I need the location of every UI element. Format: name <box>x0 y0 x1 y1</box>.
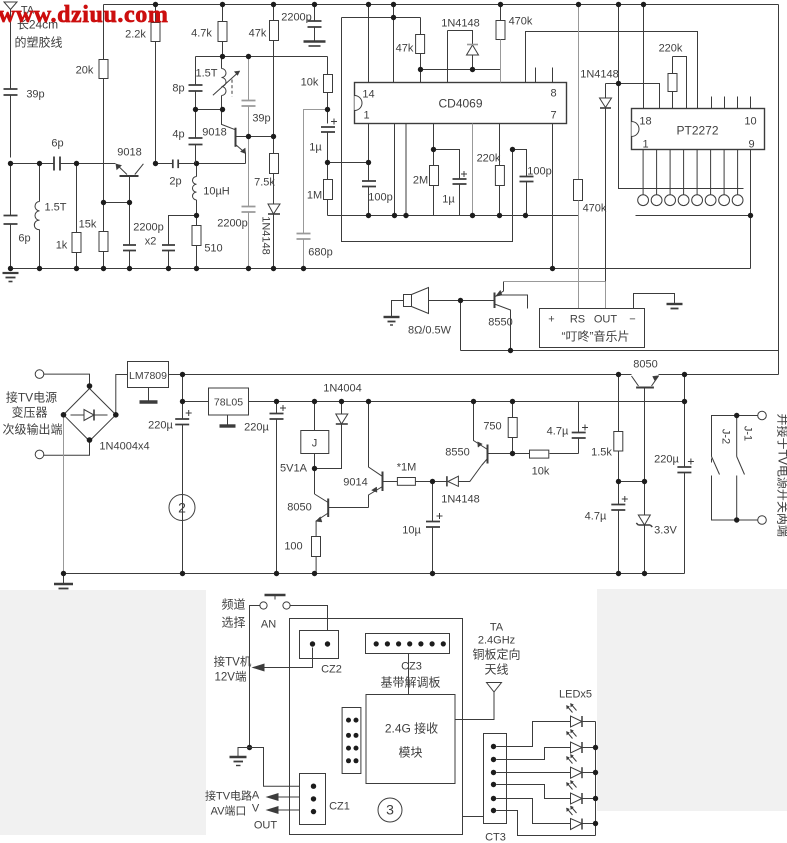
wire: 1u/1M node to CD4069 pin1 column <box>328 162 369 164</box>
svg-text:AN: AN <box>261 619 276 631</box>
diode 1N4148 (osc) <box>268 204 280 269</box>
switch pads (8 circles) <box>638 195 743 206</box>
wire: music chip - terminal to ground <box>634 294 675 309</box>
capacitor 8p <box>189 85 203 110</box>
svg-text:2200p: 2200p <box>133 222 164 234</box>
wire: LED cathode bus <box>595 722 597 836</box>
node dots LED bus <box>593 745 598 826</box>
svg-text:10k: 10k <box>301 77 319 89</box>
svg-text:20k: 20k <box>76 65 94 77</box>
svg-text:“叮咚”音乐片: “叮咚”音乐片 <box>562 329 630 344</box>
antenna (top-left plastic wire antenna) <box>4 2 17 89</box>
wire: 5V rail y=401 <box>249 401 685 403</box>
svg-text:39p: 39p <box>252 113 270 125</box>
svg-text:1µ: 1µ <box>309 142 322 154</box>
svg-text:4.7µ: 4.7µ <box>585 511 607 523</box>
capacitor 100p (pin7 side) <box>513 150 534 216</box>
wire: base node y=481 <box>619 481 645 483</box>
resistor 47k (osc) <box>270 5 279 137</box>
svg-text:78L05: 78L05 <box>214 397 243 409</box>
resistor 750 <box>508 402 517 454</box>
wire: board to CT3 <box>463 816 484 818</box>
svg-text:铜板定向: 铜板定向 <box>472 647 520 662</box>
svg-text:3.3V: 3.3V <box>654 525 677 537</box>
wire: ground node to CZ1 <box>250 748 300 787</box>
svg-text:100p: 100p <box>527 166 551 178</box>
wire: bottom bus y=573 <box>64 573 685 575</box>
connector CZ2 <box>300 631 339 659</box>
svg-text:220k: 220k <box>477 153 501 165</box>
svg-text:模块: 模块 <box>398 746 422 760</box>
capacitor 1u (CD4069, electrolytic) <box>434 150 468 216</box>
svg-text:1N4004: 1N4004 <box>323 383 362 395</box>
svg-text:10: 10 <box>744 116 756 128</box>
wire: PT2272 left column from bus <box>643 5 645 109</box>
wire: 20k/15k node to 9018 base <box>104 202 130 204</box>
regulator 78L05 <box>209 388 249 415</box>
resistor 2.2k (collector load) <box>151 5 160 164</box>
antenna TA 2.4G <box>456 683 502 720</box>
wire: rail link to 5V rail <box>684 375 686 402</box>
resistor 1k <box>72 164 81 269</box>
svg-text:1M: 1M <box>307 190 322 202</box>
svg-text:V: V <box>252 803 260 815</box>
capacitor 220u (5V filter) <box>270 402 287 574</box>
wire: CT3 pin4 to LED4 <box>496 785 570 799</box>
svg-text:8550: 8550 <box>488 317 512 329</box>
capacitor 2200p (x2, B) <box>162 245 175 269</box>
svg-text:的塑胶线: 的塑胶线 <box>14 35 62 50</box>
wire: gray pin column <box>472 124 474 216</box>
svg-text:18: 18 <box>639 116 651 128</box>
wire: CZ3 to module <box>408 654 410 695</box>
LED D5 <box>567 806 596 830</box>
wire: 8p/1.5T junction y=109 <box>196 109 222 111</box>
wire: PT2272 NC stubs top <box>712 97 751 109</box>
capacitor 100p (pin1) <box>362 181 376 216</box>
transistor 9018 (oscillator) <box>222 110 249 164</box>
node dots audio <box>458 298 513 353</box>
capacitor 2200p (decoupling, with ground) <box>308 5 322 41</box>
node dots switches <box>734 413 739 523</box>
transistor 9018 (first stage, common base) <box>116 164 144 203</box>
regulator LM7809 <box>128 362 169 388</box>
svg-text:次级输出端: 次级输出端 <box>2 422 62 437</box>
svg-text:3: 3 <box>386 802 394 818</box>
svg-text:2200p: 2200p <box>281 12 312 24</box>
svg-text:9014: 9014 <box>343 477 367 489</box>
svg-text:1.5k: 1.5k <box>591 447 612 459</box>
svg-text:4p: 4p <box>172 129 184 141</box>
svg-text:1N4148: 1N4148 <box>441 494 480 506</box>
resistor 15k <box>99 203 108 269</box>
wire: CT3 pin3 to LED3 <box>496 772 570 774</box>
terminal circle (AC in bottom) <box>35 450 44 459</box>
svg-text:39p: 39p <box>26 89 44 101</box>
wire: emitter line to music chip OUT (gray) <box>504 282 606 309</box>
capacitor 1u electrolytic <box>321 119 337 163</box>
capacitor 220u (9V filter) <box>175 375 192 574</box>
svg-text:1N4004x4: 1N4004x4 <box>99 441 149 453</box>
svg-text:750: 750 <box>483 421 501 433</box>
svg-text:220µ: 220µ <box>654 454 679 466</box>
connector CT3 <box>484 734 507 824</box>
svg-text:510: 510 <box>204 243 222 255</box>
svg-text:47k: 47k <box>396 43 414 55</box>
svg-text:LM7809: LM7809 <box>129 370 167 382</box>
transistor 8550 (audio) <box>495 282 511 351</box>
wire: net y=17 to 47k <box>342 5 421 83</box>
LED D4 <box>567 781 596 805</box>
connector CZ1 <box>300 774 326 825</box>
svg-text:−: − <box>629 314 635 326</box>
wire: CT3 pin5 to LED5 <box>496 799 570 824</box>
svg-text:www.dziuu.com: www.dziuu.com <box>0 2 168 28</box>
svg-text:接TV电路: 接TV电路 <box>205 790 252 803</box>
svg-text:接TV电源: 接TV电源 <box>6 390 57 405</box>
svg-text:+: + <box>548 314 554 326</box>
arrow V (audio out) <box>266 806 300 814</box>
capacitor 39p (osc feedback, gray) <box>242 57 256 137</box>
svg-text:变压器: 变压器 <box>11 405 47 420</box>
wire: speaker-base node down to switched rail y=350 <box>461 301 779 351</box>
resistor 220k (PT2272) <box>668 57 687 109</box>
svg-text:220µ: 220µ <box>244 422 269 434</box>
LED D1 <box>567 704 596 728</box>
ground (top-left) <box>3 272 19 274</box>
svg-text:CD4069: CD4069 <box>438 97 482 111</box>
capacitor 4p <box>189 110 203 164</box>
svg-text:2.2k: 2.2k <box>125 29 146 41</box>
diode 1N4148 (CD4069 osc) <box>467 45 479 70</box>
svg-text:2: 2 <box>178 500 186 516</box>
svg-text:CZ3: CZ3 <box>401 661 422 673</box>
svg-text:2p: 2p <box>169 176 181 188</box>
svg-text:J: J <box>312 438 318 450</box>
svg-text:10µH: 10µH <box>203 186 230 198</box>
wire: PT2272 address pins to switches <box>643 150 738 195</box>
resistor 10k (AF out) <box>324 57 333 124</box>
svg-text:1µ: 1µ <box>442 194 455 206</box>
diode zener 3.3V <box>636 482 652 574</box>
svg-text:1: 1 <box>363 110 369 122</box>
terminal circle J1 top <box>758 411 767 420</box>
capacitor 220u (switched out) <box>677 402 694 574</box>
svg-text:J-2: J-2 <box>720 429 732 444</box>
resistor 47k (CD4069) <box>416 18 425 70</box>
transistor 8050 (power switch) <box>632 376 659 482</box>
ground (speaker) <box>384 317 400 325</box>
wire: 1N4148 top link <box>448 31 473 83</box>
wire: collector node y=136 <box>249 136 274 138</box>
wire: speaker to 8550 base <box>429 300 495 302</box>
music chip box <box>540 309 645 348</box>
wire: AN left to ground column <box>250 606 260 748</box>
wire: CD4069 lower pin columns <box>395 124 407 216</box>
zener 5V1A box J <box>301 402 329 469</box>
LED D2 <box>567 730 596 754</box>
resistor 1.5k <box>614 375 623 482</box>
svg-text:9: 9 <box>748 139 754 151</box>
module 2.4G box <box>366 695 455 784</box>
wire: bus segment to 9018 osc emitter <box>197 163 246 165</box>
resistor 470k (music trigger, gray column) <box>574 5 583 309</box>
wire: net y=69 under 47k/diode <box>421 70 501 83</box>
inductor 1.5T variable (osc tank) <box>213 57 240 110</box>
node dots power <box>61 372 279 576</box>
wire: CZ2 to 12V arrow <box>265 648 313 668</box>
wire: CT3 pin2 to LED2 <box>496 748 570 760</box>
wire: bottom rail y=268 of RF section <box>11 268 751 270</box>
wire: ground bus y=215 <box>328 215 579 217</box>
resistor *1M (horizontal) <box>397 478 432 486</box>
svg-text:AV端口: AV端口 <box>211 805 247 818</box>
svg-text:15k: 15k <box>79 219 97 231</box>
svg-text:接TV机: 接TV机 <box>214 655 252 669</box>
resistor 1M <box>324 163 333 216</box>
svg-text:7.5k: 7.5k <box>254 177 275 189</box>
wire: pin14 column <box>368 5 370 83</box>
transistor 9014 <box>369 402 398 508</box>
svg-text:TA: TA <box>490 622 504 634</box>
wire: music chip + terminal <box>498 295 528 309</box>
svg-text:LEDx5: LEDx5 <box>559 689 592 701</box>
svg-text:1N4148: 1N4148 <box>441 18 480 30</box>
svg-text:8Ω/0.5W: 8Ω/0.5W <box>408 325 452 337</box>
node dots circuit2 center <box>312 399 515 576</box>
resistor 2M <box>430 124 439 216</box>
node dots RF <box>8 161 199 271</box>
svg-text:1: 1 <box>642 139 648 151</box>
wire: NC stubs above CD4069 <box>536 68 553 83</box>
capacitor 4.7u (timer) <box>572 402 588 454</box>
svg-text:10k: 10k <box>532 466 550 478</box>
ground (LM7809) <box>140 388 158 403</box>
svg-text:1.5T: 1.5T <box>44 202 66 214</box>
wire: 78L05 input <box>183 401 209 403</box>
wire: 680p branch (gray) <box>304 110 328 234</box>
receiver board box (circuit 3) <box>290 619 463 835</box>
wire: pin1 column down <box>368 124 370 181</box>
resistor 470k (top) <box>496 5 505 83</box>
capacitor 4.7u (base filter) <box>611 482 628 574</box>
inductor 10uH <box>192 164 196 216</box>
svg-text:CZ1: CZ1 <box>329 801 350 813</box>
svg-text:x2: x2 <box>145 236 157 248</box>
svg-text:并接于TV电源开关两端: 并接于TV电源开关两端 <box>776 414 787 537</box>
ground (under 2200p) <box>304 42 326 47</box>
svg-text:2.4GHz: 2.4GHz <box>478 635 515 647</box>
svg-text:14: 14 <box>362 89 374 101</box>
capacitor 680p (gray) <box>297 234 311 269</box>
wire: top bus right drop <box>778 5 780 375</box>
speaker 8ohm 0.5W <box>392 288 429 317</box>
capacitor 39p (antenna series) <box>4 89 18 158</box>
diode 1N4148 (base, horizontal) <box>433 466 482 487</box>
svg-text:7: 7 <box>550 110 556 122</box>
svg-text:2M: 2M <box>413 175 428 187</box>
svg-text:9018: 9018 <box>202 127 226 139</box>
resistor 100 <box>312 537 321 574</box>
IC CD4069 <box>355 83 567 124</box>
svg-text:CT3: CT3 <box>485 832 506 843</box>
svg-text:6p: 6p <box>51 138 63 150</box>
svg-text:4.7k: 4.7k <box>191 28 212 40</box>
svg-text:2.4G 接收: 2.4G 接收 <box>385 721 438 736</box>
svg-text:天线: 天线 <box>484 663 508 677</box>
capacitor 2200p (osc, gray) <box>242 137 256 269</box>
bridge rectifier 1N4004x4 <box>44 374 128 573</box>
wire: feedback loop left of CD4069 <box>342 18 513 242</box>
capacitor 2p (coupling) <box>156 160 197 169</box>
label circled 2 <box>169 495 195 521</box>
svg-text:12V端: 12V端 <box>215 671 247 684</box>
node dots PT2272 <box>576 2 753 218</box>
LED D3 <box>567 755 596 779</box>
svg-text:J-1: J-1 <box>742 426 754 441</box>
svg-text:10µ: 10µ <box>402 525 421 537</box>
ground (circuit 3) <box>230 745 253 766</box>
svg-text:100: 100 <box>284 541 302 553</box>
wire: pin10 column to PT2272 line <box>526 32 698 109</box>
capacitor 10u <box>426 482 443 574</box>
svg-text:9018: 9018 <box>117 147 141 159</box>
connector (module side) <box>342 708 361 774</box>
svg-text:1.5T: 1.5T <box>195 68 217 80</box>
svg-text:470k: 470k <box>509 16 533 28</box>
gray scan block bottom-right <box>597 589 787 811</box>
ground (circuit2) <box>54 574 73 589</box>
svg-text:8: 8 <box>550 88 556 100</box>
svg-text:OUT: OUT <box>594 314 618 326</box>
wire: top bus y=4 <box>104 4 779 6</box>
svg-text:8550: 8550 <box>445 447 469 459</box>
resistor 7.5k <box>270 137 279 204</box>
arrow 12V (to TV set) <box>252 664 265 672</box>
svg-text:*1M: *1M <box>397 462 417 474</box>
resistor 20k <box>99 5 108 203</box>
svg-text:RS: RS <box>570 314 585 326</box>
capacitor 6p (shunt, bottom-left) <box>4 164 18 269</box>
resistor 510 <box>192 216 201 269</box>
svg-text:47k: 47k <box>249 28 267 40</box>
ground (78L05) <box>220 415 236 426</box>
node dots right power <box>616 372 687 576</box>
svg-text:220k: 220k <box>659 43 683 55</box>
gray scan block bottom-left <box>0 590 206 835</box>
svg-text:基带解调板: 基带解调板 <box>380 676 440 690</box>
resistor 10k (horizontal) <box>513 450 579 458</box>
svg-text:OUT: OUT <box>254 820 278 832</box>
wire: pin9/data line <box>636 150 751 269</box>
transistor 8050 (driver) <box>315 469 369 537</box>
arrow A (video out) <box>266 793 300 801</box>
svg-text:选择: 选择 <box>221 616 245 630</box>
svg-text:5V1A: 5V1A <box>280 463 308 475</box>
svg-text:CZ2: CZ2 <box>321 664 342 676</box>
svg-text:1k: 1k <box>56 240 68 252</box>
svg-text:4.7µ: 4.7µ <box>547 426 569 438</box>
switch J-1 <box>737 416 745 521</box>
switch J-2 <box>712 416 758 521</box>
svg-text:2200p: 2200p <box>217 218 248 230</box>
svg-text:470k: 470k <box>583 203 607 215</box>
wire: pin7 column to rail <box>552 124 554 269</box>
svg-text:8050: 8050 <box>633 359 657 371</box>
svg-text:8p: 8p <box>172 83 184 95</box>
wire: main bus y=163 left <box>11 163 49 165</box>
terminal circle J1 bottom <box>758 516 767 525</box>
diode 1N4004 (relay clamp) <box>315 402 348 469</box>
wire: DIP switch common <box>619 84 744 189</box>
wire: CT3 pin1 to LED1 <box>496 722 570 747</box>
svg-text:680p: 680p <box>308 247 332 259</box>
svg-text:100p: 100p <box>368 192 392 204</box>
node dots osc <box>153 2 330 271</box>
inductor 1.5T (input tank) <box>34 164 39 269</box>
transistor 8550 (timer switch) <box>474 402 513 466</box>
svg-text:1N4148: 1N4148 <box>580 69 619 81</box>
connector CZ3 <box>366 634 450 654</box>
svg-text:220µ: 220µ <box>148 420 173 432</box>
diode 1N4148 (PT2272 input) <box>600 5 660 282</box>
node dots CD4069 <box>366 2 555 271</box>
wire: CT3 pin6 common return <box>496 811 595 836</box>
IC PT2272 <box>632 109 765 150</box>
wire: AN right to CZ2 <box>290 606 327 641</box>
svg-text:8050: 8050 <box>287 502 311 514</box>
capacitor 6p (series on bus) <box>49 157 65 171</box>
wire: osc top line y=56 <box>196 57 328 85</box>
svg-text:PT2272: PT2272 <box>676 124 718 138</box>
wire: bus y=163 to 9018 stage <box>65 163 116 165</box>
terminal circle (AC in top) <box>35 370 44 379</box>
capacitor 2200p (x2, emitter bypass A) <box>123 203 136 269</box>
wire: 9V rail y=374 <box>169 374 779 376</box>
pushbutton AN <box>260 595 290 609</box>
resistor 4.7k <box>218 5 227 57</box>
label circled 3 <box>378 798 402 822</box>
svg-text:1N4148: 1N4148 <box>260 216 272 255</box>
ground (music chip) <box>667 304 683 309</box>
resistor 220k (CD4069) <box>495 124 504 216</box>
wire: 10uH node jog to 2200p B <box>169 216 197 245</box>
svg-text:6p: 6p <box>18 233 30 245</box>
svg-text:A: A <box>252 790 260 802</box>
svg-text:频道: 频道 <box>221 598 245 612</box>
